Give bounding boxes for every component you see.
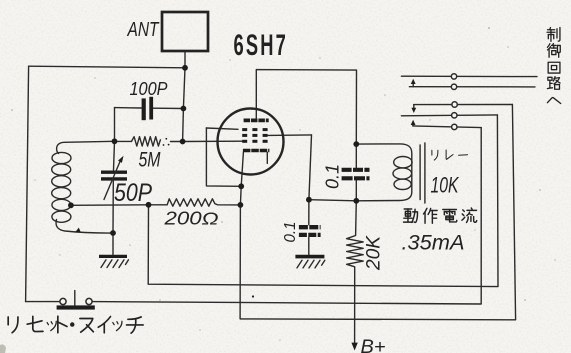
svg-text:.35mA: .35mA (402, 231, 465, 255)
svg-text:B+: B+ (361, 337, 386, 353)
svg-text:ANT: ANT (127, 19, 160, 41)
svg-text:10K: 10K (431, 173, 460, 198)
svg-text:0.1: 0.1 (323, 164, 343, 189)
svg-text:0.1: 0.1 (282, 222, 299, 243)
svg-text:6SH7: 6SH7 (234, 30, 288, 62)
svg-text:20K: 20K (364, 235, 385, 271)
svg-text:200Ω: 200Ω (163, 209, 219, 229)
svg-text:50P: 50P (114, 179, 152, 207)
svg-text:5M: 5M (139, 149, 161, 172)
svg-text:100P: 100P (130, 78, 169, 99)
